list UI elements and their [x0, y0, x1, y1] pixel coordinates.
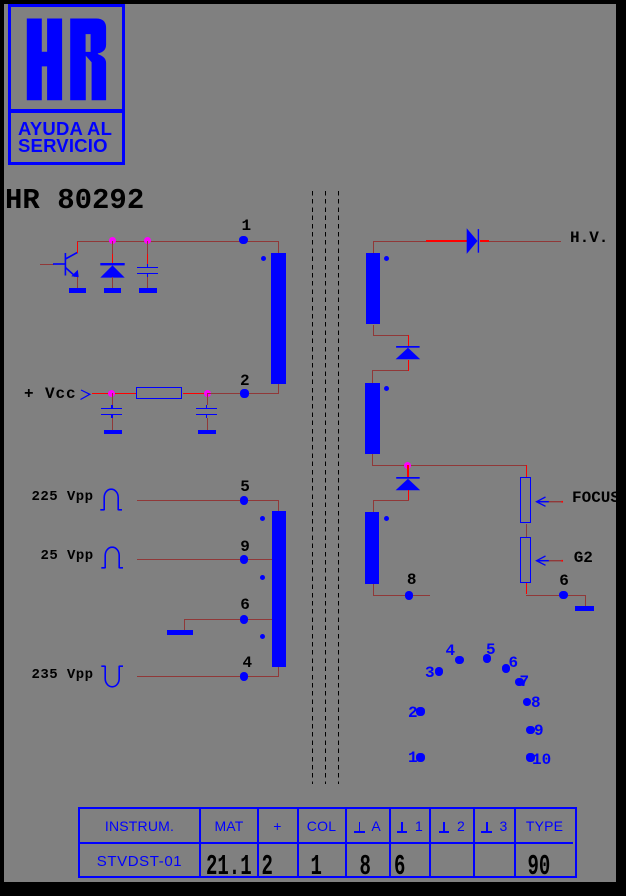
pinout node 1 — [416, 753, 425, 762]
phase dot — [384, 256, 389, 261]
label 235 Vpp — [32, 668, 94, 682]
wire: W4 bottom down — [372, 454, 373, 465]
input chevron — [79, 388, 92, 401]
label FOCUS — [572, 490, 620, 506]
wire: red out of diode — [480, 240, 490, 242]
wire: to pin 6 and ground — [526, 595, 586, 596]
pinout node 10 — [526, 753, 535, 762]
data table — [78, 807, 577, 878]
wire: W3 top up — [373, 241, 374, 253]
wire: down to ground — [585, 595, 586, 607]
wire: right to focus divider — [372, 465, 526, 466]
wire: junction to C2 — [112, 393, 113, 405]
node junction — [109, 237, 116, 244]
HR logo monogram — [0, 0, 130, 110]
table data: earth A 8 — [360, 853, 371, 882]
wire: to pin 8 — [373, 595, 431, 596]
ground — [69, 288, 86, 293]
pinout node 9 — [526, 726, 535, 735]
capacitor C3 — [206, 405, 208, 408]
wire: C3 to ground — [207, 418, 208, 430]
resistor R1 (FOCUS) — [520, 477, 532, 523]
table column lines — [199, 809, 201, 876]
pinout node 2 — [416, 707, 425, 716]
label 25 Vpp — [41, 549, 94, 563]
winding W1 (primary) — [271, 253, 286, 384]
wire: red into diode — [426, 240, 467, 242]
wire: Q1 emitter to ground — [77, 277, 78, 288]
capacitor C1 — [147, 264, 149, 267]
wire: rail to winding W1 — [278, 241, 279, 253]
transistor Q1 — [50, 245, 85, 280]
waveform positive pulse — [100, 545, 125, 569]
wire: C1 to ground — [147, 277, 148, 288]
node pin 1 — [239, 236, 248, 245]
pin label 5 — [240, 479, 250, 495]
pinout node 5 — [483, 654, 492, 663]
wire: Vcc to R3 — [92, 393, 137, 394]
wire: top rail — [77, 241, 279, 242]
table data: earth 1 6 — [394, 853, 405, 882]
title HR 80292 — [5, 186, 144, 215]
wire: down to D2 — [408, 335, 409, 347]
wire: junction to C3 — [207, 393, 208, 405]
winding W2 — [272, 511, 287, 667]
phase dot — [261, 256, 266, 261]
node pin 4 — [240, 672, 249, 681]
node pin 9 — [240, 555, 249, 564]
wire: R2 down — [526, 583, 527, 594]
label + Vcc — [24, 386, 77, 402]
table data: TYPE 90 — [528, 853, 551, 882]
pin label 2 — [240, 373, 250, 389]
table headers — [80, 820, 199, 833]
label 225 Vpp — [32, 490, 94, 504]
wire: 25Vpp to pin 9 — [137, 559, 272, 560]
wire: right to D2 — [373, 335, 409, 336]
wire: C2 to ground — [112, 418, 113, 430]
wire: W3 bottom down — [373, 325, 374, 336]
wire: W5 bottom down — [373, 584, 374, 595]
ground — [198, 430, 216, 435]
pin label 4 — [243, 655, 253, 671]
pin label 9 — [240, 539, 250, 555]
wire: diode to HV — [489, 241, 561, 242]
ground — [167, 630, 193, 636]
wire: D2 down — [408, 360, 409, 371]
winding W4 — [365, 383, 380, 454]
table data: COL 1 — [311, 853, 322, 882]
wire: to pin2 and winding — [207, 393, 279, 394]
diode D4 (EHT) — [465, 227, 482, 255]
node pin 6 — [559, 591, 568, 600]
node junction — [204, 390, 211, 397]
pin label 8 — [407, 572, 417, 588]
winding W5 — [365, 512, 380, 584]
node pin 2 — [240, 389, 249, 398]
tap dot — [260, 516, 265, 521]
wire: down to D3 — [407, 465, 408, 477]
HR logo text AYUDA AL — [18, 120, 128, 155]
table data: instrument — [80, 855, 199, 868]
diode D3 — [395, 476, 422, 491]
ground — [104, 288, 121, 294]
table data: + 2 — [262, 853, 273, 882]
wire: down into W4 — [372, 370, 373, 383]
node pin 6 — [240, 615, 249, 624]
resistor R2 (G2) — [520, 537, 532, 583]
wire: R1 to R2 — [526, 524, 527, 537]
phase dot — [384, 386, 389, 391]
wire: down to focus resistor — [526, 465, 527, 477]
tap dot — [260, 575, 265, 580]
node junction — [144, 237, 151, 244]
wire: base lead — [40, 264, 54, 265]
wire: Q1 collector stub — [77, 241, 78, 253]
pinout node 4 — [455, 656, 464, 665]
transformer core — [312, 191, 313, 784]
wire: down into W2 top — [278, 500, 279, 512]
label G2 — [574, 550, 593, 566]
node junction — [404, 462, 411, 469]
arrow FOCUS — [535, 495, 565, 509]
node pin 8 — [405, 591, 414, 600]
tap dot — [260, 634, 265, 639]
wire: 235Vpp to pin 4 — [137, 676, 280, 677]
pin label 6 — [559, 573, 569, 589]
pinout node 7 — [515, 678, 524, 687]
ground — [575, 606, 594, 611]
wire: left to W5 — [373, 500, 409, 501]
pinout node 8 — [523, 698, 532, 707]
wire: rail to D1 — [112, 241, 113, 254]
winding W3 (HV secondary top) — [366, 253, 380, 324]
HR logo box — [8, 4, 125, 165]
diode D2 — [395, 345, 422, 360]
wire: 225Vpp to pin 5 — [137, 500, 280, 501]
table row divider — [80, 842, 573, 844]
wire: D1 to ground — [112, 277, 113, 288]
HR logo divider — [8, 109, 125, 113]
diode D1 — [99, 262, 127, 280]
wire: down into W5 — [373, 500, 374, 512]
wire: pin 6 to ground — [184, 619, 272, 620]
arrow G2 — [535, 554, 565, 568]
label H.V. — [570, 230, 608, 246]
pinout node 6 — [502, 664, 511, 673]
phase dot — [384, 516, 389, 521]
waveform positive pulse — [99, 487, 124, 511]
waveform negative pulse — [100, 665, 125, 689]
wire: D3 down — [408, 490, 409, 501]
pinout node 3 — [435, 667, 444, 676]
ground — [139, 288, 157, 293]
capacitor C2 — [111, 405, 113, 408]
wire: rail to C1 — [147, 241, 148, 254]
pin label 1 — [242, 218, 252, 234]
pin label 6 — [240, 597, 250, 613]
wire: up into W2 bottom — [278, 667, 279, 676]
ground — [104, 430, 122, 435]
node pin 5 — [240, 496, 249, 505]
wire: left to W4 — [372, 370, 408, 371]
node junction — [108, 390, 115, 397]
wire: down to ground — [184, 619, 185, 630]
wire: up into W1 bottom — [278, 384, 279, 393]
wire: R3 to pin 2 — [183, 393, 207, 394]
resistor R3 — [136, 387, 182, 399]
table data: MAT 21.1 — [206, 853, 252, 882]
wire: to HV diode — [373, 241, 427, 242]
